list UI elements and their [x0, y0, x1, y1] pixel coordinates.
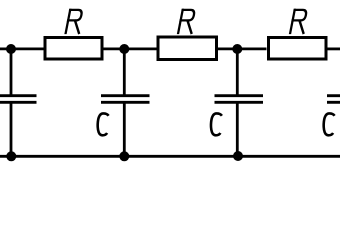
node A top junction dot — [6, 44, 16, 54]
wire top rail between R1 and node 2 — [104, 48, 157, 51]
label C4 value — [324, 113, 335, 135]
capacitor C1 — [0, 49, 37, 156]
resistor R1 — [45, 38, 102, 60]
label R1 value — [66, 10, 84, 33]
node C bottom junction dot — [233, 151, 243, 161]
wire top rail left segment — [0, 48, 44, 51]
capacitor C2 — [101, 49, 150, 156]
label C2 value — [98, 113, 109, 135]
node A bottom junction dot — [6, 151, 16, 161]
label R3 value — [290, 10, 308, 33]
node B bottom junction dot — [119, 151, 129, 161]
resistor R3 — [269, 38, 327, 60]
label C3 value — [211, 113, 222, 135]
node B top junction dot — [119, 44, 129, 54]
wire top rail right stub after R3 — [328, 48, 340, 51]
capacitor C4 (cut off at right edge) — [327, 96, 340, 103]
resistor R2 — [158, 37, 217, 60]
label R2 value — [178, 10, 196, 33]
capacitor C3 — [215, 49, 264, 156]
wire top rail between R2 and node 3 — [218, 48, 267, 51]
wire bottom rail — [0, 155, 340, 158]
node C top junction dot — [232, 44, 242, 54]
